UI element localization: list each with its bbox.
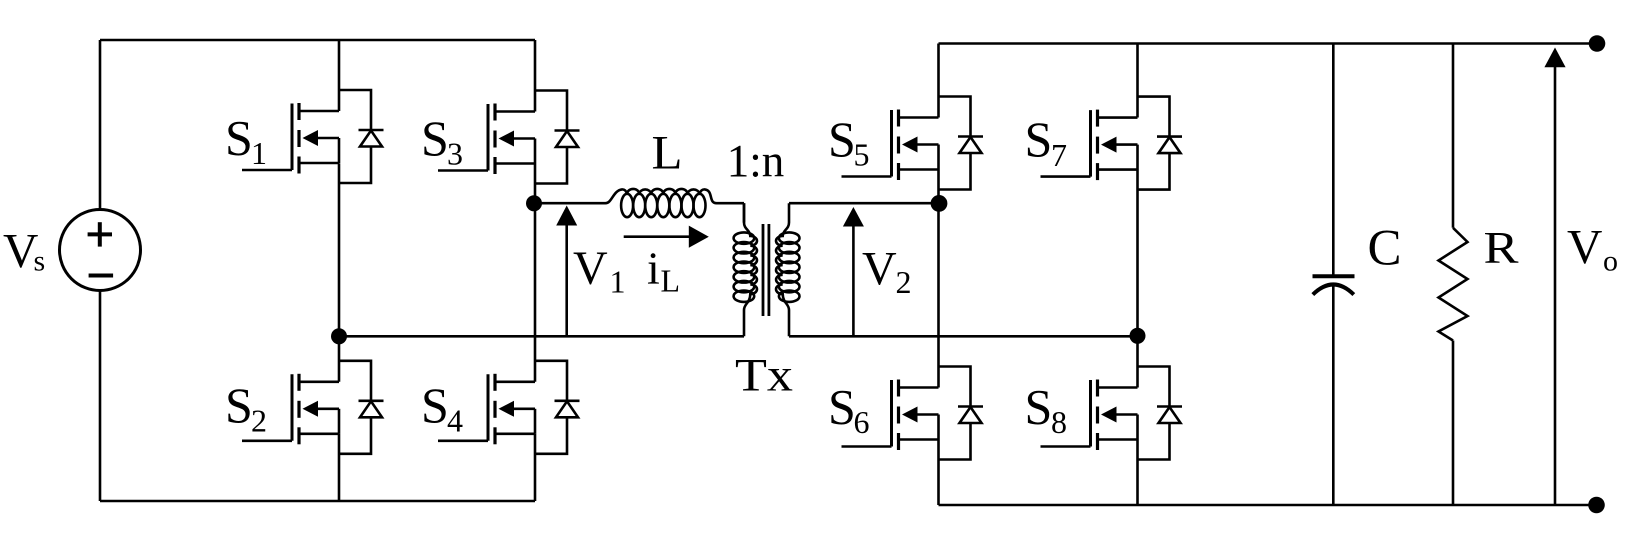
svg-text:S: S: [828, 379, 856, 435]
svg-text:o: o: [1603, 245, 1618, 278]
svg-text:S: S: [421, 110, 449, 166]
svg-text:V: V: [1567, 219, 1602, 274]
svg-text:1: 1: [610, 264, 626, 300]
svg-text:C: C: [1368, 221, 1402, 277]
svg-text:2: 2: [251, 403, 267, 439]
svg-text:8: 8: [1051, 404, 1067, 440]
svg-text:L: L: [652, 128, 683, 180]
svg-text:3: 3: [447, 136, 463, 172]
svg-text:1:n: 1:n: [727, 136, 785, 188]
svg-text:S: S: [1025, 111, 1053, 167]
svg-text:2: 2: [896, 264, 912, 300]
svg-text:R: R: [1484, 222, 1519, 273]
svg-text:Tx: Tx: [735, 350, 793, 402]
svg-text:6: 6: [854, 404, 870, 440]
svg-text:s: s: [34, 245, 46, 278]
svg-text:4: 4: [447, 403, 463, 439]
svg-text:S: S: [828, 111, 856, 167]
svg-text:7: 7: [1051, 137, 1067, 173]
svg-text:5: 5: [854, 137, 870, 173]
svg-text:1: 1: [251, 135, 267, 171]
svg-text:L: L: [661, 263, 681, 299]
svg-text:V: V: [862, 242, 897, 295]
svg-text:S: S: [1025, 379, 1053, 435]
svg-text:i: i: [647, 243, 660, 294]
svg-text:S: S: [225, 109, 253, 165]
svg-text:S: S: [225, 377, 253, 433]
svg-text:V: V: [573, 242, 608, 295]
svg-text:S: S: [421, 377, 449, 433]
